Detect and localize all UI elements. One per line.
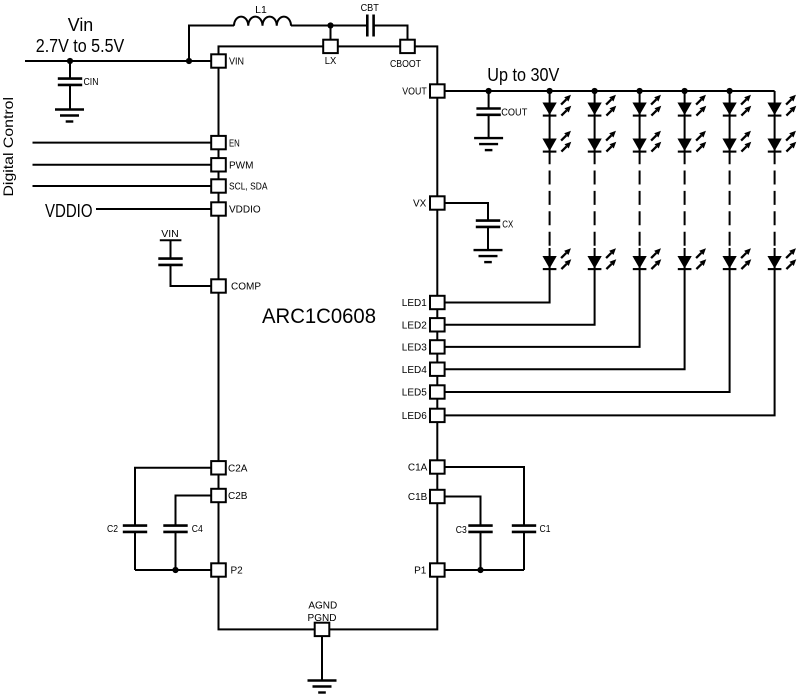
pin COMP — [211, 279, 261, 292]
pin C2B — [211, 489, 248, 502]
wire C4 to P2 rail — [175, 532, 177, 570]
capacitor CIN branch wire — [69, 61, 71, 78]
wire VIN label to bypass cap — [170, 240, 172, 258]
pin C1A — [408, 460, 445, 473]
pin VX — [413, 196, 445, 209]
node LX junction on L1-CBT wire — [327, 22, 333, 28]
pin P1 — [414, 563, 445, 576]
wire LED column 3 lower segment to LED3 pin — [445, 248, 640, 347]
wire LED column 4 upper segment — [684, 91, 686, 164]
wire CX to ground — [487, 227, 489, 250]
LED column 1 diode A — [543, 95, 571, 115]
pin VOUT — [402, 84, 444, 97]
pin LED4 — [402, 363, 445, 376]
wire CIN to ground — [69, 85, 71, 109]
svg-text:VDDIO: VDDIO — [45, 201, 93, 221]
LED column 5 diode A — [723, 95, 751, 115]
svg-text:VDDIO: VDDIO — [229, 205, 261, 216]
node COUT junction — [486, 88, 492, 94]
pin LX — [323, 40, 338, 67]
capacitor COUT — [476, 107, 527, 119]
wire LED column 1 upper segment — [549, 91, 551, 164]
svg-text:LED1: LED1 — [402, 298, 427, 309]
LED column 3 diode A — [633, 95, 661, 115]
svg-text:PWM: PWM — [229, 161, 253, 172]
pin LED3 — [402, 340, 445, 353]
svg-text:LED5: LED5 — [402, 388, 427, 399]
wire LED column 2 upper segment — [594, 91, 596, 164]
svg-text:CBT: CBT — [361, 2, 380, 14]
wire LED column 4 lower segment to LED4 pin — [445, 248, 685, 369]
LED column 4 diode B — [678, 131, 706, 151]
LED column 3 diode B — [633, 131, 661, 151]
node Vin/CIN junction — [67, 58, 73, 64]
wire P1 rail — [445, 569, 524, 571]
wire LED column 4 dashed continuation — [684, 171, 686, 246]
wire C2 to P2 rail — [134, 532, 136, 570]
wire P2 rail — [135, 569, 211, 571]
pin VDDIO — [211, 202, 261, 215]
node C4/P2 junction — [172, 567, 178, 573]
wire bypass cap to COMP pin — [171, 265, 212, 286]
wire VX to CX — [445, 203, 488, 220]
svg-text:VIN: VIN — [229, 57, 244, 68]
pin VIN — [211, 54, 244, 67]
LED column 4 diode C — [678, 249, 706, 269]
LED column 5 diode B — [723, 131, 751, 151]
wire C2A to C2 — [135, 468, 211, 526]
capacitor VIN bypass (COMP) — [158, 259, 182, 265]
wire EN input — [33, 142, 212, 144]
capacitor CX — [476, 219, 514, 231]
pin CBOOT — [390, 40, 421, 70]
node Vin supply label — [36, 15, 125, 56]
wire LED column 1 dashed continuation — [549, 171, 551, 246]
capacitor C3 — [456, 524, 493, 536]
wire LED column 2 lower segment to LED2 pin — [445, 248, 595, 325]
svg-text:PGND: PGND — [308, 613, 337, 624]
ground COUT — [474, 138, 503, 150]
wire Vin input rail — [25, 60, 211, 62]
wire VDDIO input — [96, 208, 211, 210]
wire PWM input — [33, 164, 212, 166]
svg-text:2.7V to 5.5V: 2.7V to 5.5V — [36, 36, 125, 56]
svg-text:C1A: C1A — [408, 463, 428, 474]
pin LED2 — [402, 318, 445, 331]
capacitor C4 — [163, 523, 203, 535]
node VDDIO net label — [45, 201, 93, 221]
LED column 4 diode A — [678, 95, 706, 115]
svg-text:COUT: COUT — [501, 107, 528, 119]
svg-text:C4: C4 — [192, 523, 203, 535]
pin AGND PGND — [308, 600, 338, 636]
pin C1B — [408, 490, 445, 503]
pin SCL, SDA — [211, 179, 268, 192]
svg-text:COMP: COMP — [231, 282, 261, 293]
wire Vin riser to L1 — [189, 26, 234, 62]
pin PWM — [211, 158, 253, 171]
node Digital Control label — [0, 97, 16, 197]
wire LED column 3 dashed continuation — [639, 171, 641, 246]
node VIN net label with underline — [160, 228, 182, 240]
wire LED column 3 upper segment — [639, 91, 641, 164]
capacitor CIN — [58, 76, 99, 88]
svg-text:C1: C1 — [540, 523, 551, 535]
wire LED column 5 lower segment to LED5 pin — [445, 248, 730, 392]
svg-text:LED2: LED2 — [402, 321, 427, 332]
node LED column 4 rail junction — [682, 88, 688, 94]
wire C2B to C4 — [176, 496, 212, 526]
svg-text:VOUT: VOUT — [402, 87, 427, 98]
node LED column 1 rail junction — [547, 88, 553, 94]
node Up to 30V label — [487, 65, 559, 85]
svg-text:Digital Control: Digital Control — [0, 97, 16, 197]
LED column 1 diode C — [543, 249, 571, 269]
pin C2A — [211, 461, 248, 474]
svg-text:EN: EN — [229, 138, 240, 149]
LED column 2 diode C — [588, 249, 616, 269]
svg-text:LED4: LED4 — [402, 365, 427, 376]
pin EN — [211, 136, 240, 149]
wire VOUT rail — [445, 90, 775, 92]
IC U1 ARC1C0608 body — [219, 46, 438, 629]
capacitor C1 — [512, 523, 551, 535]
LED column 1 diode B — [543, 131, 571, 151]
pin LED6 — [402, 409, 445, 422]
LED column 2 diode A — [588, 95, 616, 115]
wire LED column 5 upper segment — [729, 91, 731, 164]
ground CIN — [55, 110, 84, 122]
svg-text:ARC1C0608: ARC1C0608 — [262, 304, 376, 328]
svg-text:VX: VX — [413, 199, 427, 210]
svg-text:CIN: CIN — [84, 76, 99, 88]
ground AGND/PGND — [308, 681, 337, 693]
svg-text:AGND: AGND — [308, 600, 337, 611]
LED column 6 diode C — [768, 249, 796, 269]
svg-text:C2B: C2B — [228, 491, 248, 502]
svg-text:Vin: Vin — [68, 15, 94, 35]
wire LX riser — [330, 26, 332, 40]
LED column 6 diode B — [768, 131, 796, 151]
wire VOUT to COUT — [488, 91, 490, 108]
svg-text:P1: P1 — [414, 566, 427, 577]
capacitor C2 — [107, 523, 147, 535]
pin LED1 — [402, 296, 445, 309]
wire LED column 2 dashed continuation — [594, 171, 596, 246]
svg-text:Up to 30V: Up to 30V — [487, 65, 559, 85]
svg-text:C1B: C1B — [408, 492, 428, 503]
LED column 6 diode A — [768, 95, 796, 115]
wire LED column 1 lower segment to LED1 pin — [445, 248, 550, 303]
svg-text:LX: LX — [325, 56, 337, 67]
wire C1B to C3 — [445, 497, 481, 526]
svg-text:VIN: VIN — [161, 228, 179, 240]
LED column 5 diode C — [723, 249, 751, 269]
svg-text:LED6: LED6 — [402, 411, 427, 422]
pin P2 — [211, 563, 243, 576]
svg-text:CX: CX — [502, 219, 513, 231]
capacitor CBT — [361, 2, 380, 37]
wire LED column 6 upper segment — [774, 91, 776, 164]
wire AGND/PGND to ground — [321, 636, 323, 680]
node Vin/L1 junction — [186, 58, 192, 64]
node LED column 2 rail junction — [592, 88, 598, 94]
wire C1A to C1 — [445, 467, 524, 525]
LED column 2 diode B — [588, 131, 616, 151]
svg-text:C2A: C2A — [228, 464, 248, 475]
wire LED column 6 dashed continuation — [774, 171, 776, 246]
node LED column 3 rail junction — [637, 88, 643, 94]
wire C1 to P1 rail — [523, 532, 525, 570]
node LED column 5 rail junction — [727, 88, 733, 94]
wire C3 to P1 rail — [480, 532, 482, 570]
pin LED5 — [402, 385, 445, 398]
wire L1 to CBT — [291, 25, 367, 27]
svg-text:CBOOT: CBOOT — [390, 59, 421, 70]
IC title ARC1C0608 — [262, 304, 376, 328]
svg-text:LED3: LED3 — [402, 343, 427, 354]
wire CBT to CBOOT — [374, 26, 408, 40]
ground CX — [474, 250, 503, 262]
svg-text:C2: C2 — [107, 523, 118, 535]
LED column 3 diode C — [633, 249, 661, 269]
svg-text:L1: L1 — [255, 4, 267, 16]
wire COUT to ground — [488, 115, 490, 138]
node C3/P1 junction — [477, 567, 483, 573]
svg-text:SCL, SDA: SCL, SDA — [229, 182, 268, 193]
wire SCL,SDA input — [33, 185, 212, 187]
inductor L1 — [234, 4, 291, 26]
wire LED column 6 lower segment to LED6 pin — [445, 248, 775, 415]
wire LED column 5 dashed continuation — [729, 171, 731, 246]
svg-text:P2: P2 — [231, 566, 244, 577]
svg-text:C3: C3 — [456, 524, 467, 536]
